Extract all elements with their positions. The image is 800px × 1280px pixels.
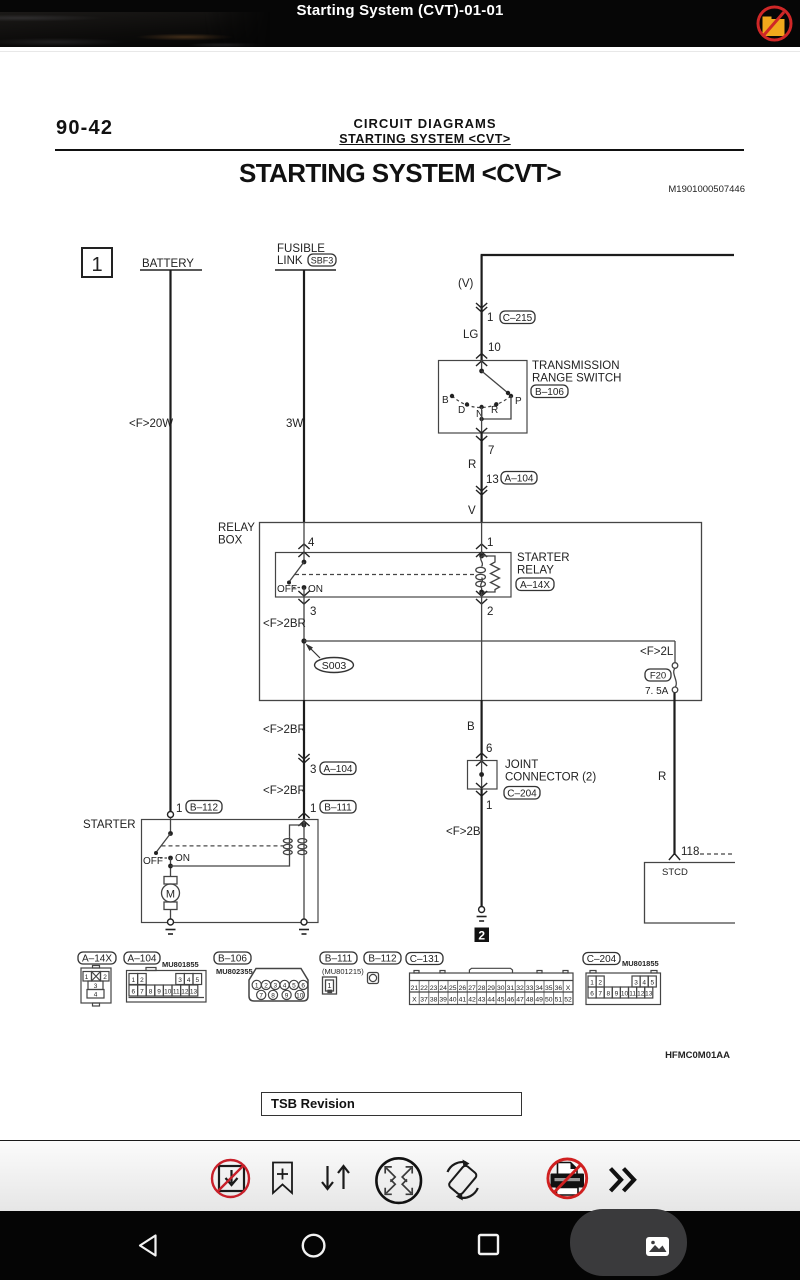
relay OFF-ON dashes	[293, 587, 302, 589]
car photo strip	[0, 12, 270, 47]
svg-text:10: 10	[621, 991, 629, 998]
transmission range switch box B-106	[439, 361, 528, 434]
relay switch blade (OFF)	[289, 562, 304, 582]
svg-text:34: 34	[535, 985, 543, 992]
svg-text:25: 25	[449, 985, 457, 992]
svg-text:2: 2	[598, 980, 602, 987]
starter ON contact dot	[168, 856, 173, 861]
svg-text:B–106: B–106	[218, 954, 247, 965]
TRS output junction dot	[479, 417, 483, 421]
svg-text:C–204: C–204	[507, 789, 537, 800]
starter relay inner box	[276, 553, 512, 598]
svg-text:10: 10	[488, 342, 501, 354]
relay switch common dot	[302, 560, 307, 565]
svg-text:<F>2BR: <F>2BR	[263, 618, 306, 630]
svg-text:7: 7	[140, 989, 144, 996]
svg-text:7: 7	[488, 445, 494, 457]
connector B-106 face	[249, 969, 308, 1002]
hold-in coil windings	[283, 837, 292, 856]
svg-text:44: 44	[487, 997, 495, 1004]
battery B+ terminal bar	[140, 258, 202, 270]
svg-text:8: 8	[149, 989, 153, 996]
svg-text:A–104: A–104	[324, 764, 353, 775]
svg-text:OFF: OFF	[277, 584, 297, 595]
svg-text:1: 1	[487, 537, 493, 549]
starter relay caption	[517, 552, 570, 577]
node 1 (page reference square)	[82, 248, 112, 277]
top app bar	[0, 0, 800, 47]
TRS connector label B-106	[531, 385, 568, 398]
fuse F20 element	[674, 668, 677, 687]
wire battery down to starter	[169, 270, 171, 812]
starter switch blade (OFF)	[156, 834, 171, 853]
svg-text:13: 13	[645, 991, 653, 998]
svg-text:C–204: C–204	[587, 954, 617, 965]
svg-text:1: 1	[91, 254, 102, 276]
wire pin2 down through relay box	[481, 592, 483, 700]
svg-text:13: 13	[486, 474, 499, 486]
starter motor ground terminal	[168, 919, 174, 925]
svg-text:1: 1	[176, 803, 182, 815]
svg-text:3: 3	[178, 977, 182, 984]
connector A-14X label (row)	[78, 952, 116, 965]
connector C-131 face	[410, 968, 574, 1004]
ground G2 symbol	[477, 917, 487, 922]
svg-text:5: 5	[650, 980, 654, 987]
svg-text:<F>20W: <F>20W	[129, 418, 173, 430]
svg-text:<F>2BR: <F>2BR	[263, 785, 306, 797]
starter B-112 terminal circle	[168, 812, 174, 818]
nav recents button	[479, 1235, 498, 1254]
svg-text:26: 26	[459, 985, 467, 992]
svg-text:R: R	[658, 771, 666, 783]
svg-text:JOINT: JOINT	[505, 759, 538, 771]
starter switch blade tip dot	[154, 851, 158, 855]
svg-text:C–131: C–131	[410, 954, 440, 965]
svg-text:CONNECTOR (2): CONNECTOR (2)	[505, 772, 596, 784]
connector A-14X face	[81, 966, 111, 1007]
svg-text:TRANSMISSION: TRANSMISSION	[532, 360, 620, 372]
fusible link SBF3 label	[308, 254, 336, 266]
S003 branch horizontal wire	[304, 640, 675, 642]
toolbar icons svg	[0, 1142, 800, 1214]
joint connector caption	[505, 759, 596, 784]
relay box outline	[260, 523, 702, 701]
svg-text:6: 6	[486, 743, 492, 755]
svg-text:6: 6	[590, 991, 594, 998]
svg-text:9: 9	[285, 993, 289, 1000]
toolbar icon: no-print	[548, 1159, 587, 1198]
svg-text:R: R	[468, 459, 476, 471]
svg-text:1: 1	[487, 312, 493, 324]
svg-text:3: 3	[273, 983, 277, 990]
svg-text:MU802355: MU802355	[216, 967, 253, 976]
STCD wire end arrow	[669, 854, 680, 861]
starter branch wire to hold-in coil	[171, 856, 290, 867]
page header	[56, 117, 113, 140]
relay pin2 exit arrows	[476, 591, 487, 604]
S003 splice label	[315, 658, 354, 673]
starter motor M top brush block	[164, 877, 177, 885]
svg-text:RELAY: RELAY	[218, 522, 255, 534]
connector A-104 label (row)	[124, 952, 160, 965]
wire into relay switch	[303, 523, 305, 562]
relay pin4 entry arrows	[298, 544, 309, 557]
svg-text:A–104: A–104	[505, 474, 534, 485]
joint connector label C-204	[504, 787, 540, 800]
motor to ground wire	[170, 910, 172, 920]
svg-text:45: 45	[497, 997, 505, 1004]
svg-text:1: 1	[131, 977, 135, 984]
toolbar icon: add bookmark	[273, 1163, 292, 1194]
starter motor M bottom brush block	[164, 902, 177, 910]
svg-text:RANGE SWITCH: RANGE SWITCH	[532, 373, 621, 385]
svg-text:31: 31	[507, 985, 515, 992]
TRS dashed position arc	[452, 396, 511, 408]
svg-text:A–14X: A–14X	[82, 954, 112, 965]
svg-text:22: 22	[420, 985, 428, 992]
starter coil ground symbol	[299, 930, 309, 935]
svg-text:V: V	[468, 505, 476, 517]
svg-text:FUSIBLE: FUSIBLE	[277, 243, 325, 255]
svg-text:47: 47	[516, 997, 524, 1004]
svg-text:<F>2BR: <F>2BR	[263, 724, 306, 736]
svg-text:27: 27	[468, 985, 476, 992]
toolbar icon: scroll up-down	[322, 1166, 349, 1189]
svg-text:4: 4	[642, 980, 646, 987]
contact dot N	[479, 405, 483, 409]
fuse F20 label	[645, 669, 671, 682]
relay pin1 entry arrows	[476, 544, 487, 557]
toolbar icon: more chevrons	[611, 1169, 635, 1192]
connector A-104 label	[501, 472, 537, 485]
svg-text:P: P	[515, 396, 522, 407]
relay actuation dashed link	[295, 574, 474, 576]
STCD dashed pin line	[700, 853, 735, 855]
svg-text:1: 1	[327, 981, 331, 990]
svg-text:1: 1	[486, 800, 492, 812]
wire relay box to joint connector	[481, 700, 483, 760]
svg-text:43: 43	[478, 997, 486, 1004]
wire: ignition feed down to TRS	[481, 255, 483, 360]
svg-text:2: 2	[264, 983, 268, 990]
connector B-112 label	[186, 801, 222, 814]
svg-text:3W: 3W	[286, 418, 303, 430]
svg-text:12: 12	[637, 991, 645, 998]
svg-text:7: 7	[598, 991, 602, 998]
TRS common contact wire	[481, 360, 483, 371]
svg-text:2: 2	[140, 977, 144, 984]
wire fuse down to STCD	[673, 693, 675, 855]
svg-text:4: 4	[283, 983, 287, 990]
starter branch junction dot	[168, 864, 173, 869]
joint connector entry arrows	[476, 753, 487, 766]
svg-text:SBF3: SBF3	[311, 256, 334, 266]
connector B-112 label (row)	[364, 952, 401, 965]
TRS exit arrows	[476, 428, 487, 441]
connector B-106 label (row)	[214, 952, 251, 965]
svg-text:3: 3	[310, 764, 316, 776]
no-folder icon	[0, 0, 800, 47]
svg-text:11: 11	[629, 991, 636, 998]
relay coil windings	[476, 556, 486, 592]
coil junction dot on B-111 wire	[302, 823, 307, 828]
svg-text:2: 2	[103, 974, 107, 981]
svg-text:33: 33	[526, 985, 534, 992]
svg-text:6: 6	[301, 983, 305, 990]
svg-text:2: 2	[487, 606, 493, 618]
wire TRS to relay box	[481, 433, 483, 523]
svg-text:B: B	[467, 721, 475, 733]
svg-text:11: 11	[173, 989, 180, 996]
joint connector box	[468, 761, 498, 790]
splice junction S003 dot	[301, 638, 306, 643]
svg-text:36: 36	[555, 985, 563, 992]
svg-text:R: R	[491, 405, 498, 416]
joint connector node dot	[479, 772, 484, 777]
starter OFF-ON dashes	[160, 857, 168, 859]
contact dot R	[494, 402, 498, 406]
svg-text:A–14X: A–14X	[520, 580, 550, 591]
starter switch common dot	[168, 831, 173, 836]
starter motor ground symbol	[166, 930, 176, 935]
pull-in coil feed wire	[303, 819, 305, 836]
TRS output wire	[481, 407, 483, 433]
relay pin3 exit arrows	[298, 591, 309, 604]
svg-text:BOX: BOX	[218, 535, 243, 547]
starter relay connector label A-14X	[516, 578, 554, 591]
connector B-112 face	[368, 973, 379, 984]
fuse F20 top terminal	[672, 663, 678, 669]
svg-text:<F>2B: <F>2B	[446, 826, 481, 838]
svg-text:STARTER: STARTER	[517, 552, 570, 564]
svg-text:MU801855: MU801855	[622, 959, 659, 968]
relay ON contact dot	[302, 585, 307, 590]
pull-in coil windings	[298, 836, 307, 855]
connector C-215 label	[500, 311, 535, 324]
connector C-204 face	[586, 971, 661, 1005]
svg-text:24: 24	[439, 985, 447, 992]
nav screenshot pill	[570, 1209, 687, 1276]
svg-text:8: 8	[271, 993, 275, 1000]
fuse F20 bottom terminal	[672, 687, 678, 693]
svg-text:S003: S003	[322, 660, 347, 672]
svg-text:LINK: LINK	[277, 255, 303, 267]
contact dot D	[465, 402, 469, 406]
svg-text:10: 10	[164, 989, 172, 996]
connector B-111 label	[320, 801, 356, 814]
svg-text:23: 23	[430, 985, 438, 992]
connector B-111 label (row)	[320, 952, 357, 965]
svg-text:B–111: B–111	[324, 803, 352, 814]
svg-text:1: 1	[85, 974, 89, 981]
svg-text:13: 13	[190, 989, 198, 996]
svg-text:ON: ON	[308, 584, 323, 595]
wire into relay coil	[481, 523, 483, 556]
svg-text:B–111: B–111	[325, 954, 353, 965]
svg-text:50: 50	[545, 997, 553, 1004]
app title	[0, 2, 800, 19]
contact dot P	[509, 394, 513, 398]
svg-text:ON: ON	[175, 853, 190, 864]
svg-text:BATTERY: BATTERY	[142, 258, 194, 270]
nav icons svg	[0, 1206, 800, 1280]
svg-text:X: X	[412, 997, 417, 1004]
wire: top feed horizontal	[481, 254, 734, 256]
svg-text:30: 30	[497, 985, 505, 992]
connector break arrows at A-104 (3)	[298, 754, 309, 763]
hold-in coil top connection	[290, 825, 305, 837]
svg-text:51: 51	[555, 997, 563, 1004]
svg-text:B–106: B–106	[535, 387, 564, 398]
wire relay to starter right	[303, 700, 305, 819]
starter box	[142, 820, 319, 923]
svg-text:B–112: B–112	[190, 803, 219, 814]
svg-text:7. 5A: 7. 5A	[645, 686, 669, 697]
svg-text:4: 4	[94, 992, 98, 999]
TRS common node dot	[479, 369, 484, 374]
svg-text:7: 7	[259, 993, 263, 1000]
wire fusible link down to relay box	[303, 270, 305, 523]
svg-text:X: X	[566, 985, 571, 992]
contact dot B	[450, 394, 454, 398]
pull-in coil to ground wire	[303, 855, 305, 919]
bottom toolbar	[0, 1140, 800, 1211]
toolbar icon: fit-to-screen	[376, 1158, 421, 1203]
starter switch actuation dashed link	[162, 845, 285, 847]
svg-text:A–104: A–104	[128, 954, 157, 965]
connector break arrows at A-104	[476, 486, 487, 495]
svg-text:<F>2L: <F>2L	[640, 646, 674, 658]
TRS entry arrows	[476, 354, 487, 367]
svg-text:8: 8	[606, 991, 610, 998]
svg-text:MU801855: MU801855	[162, 960, 199, 969]
svg-text:3: 3	[94, 983, 98, 990]
svg-text:RELAY: RELAY	[517, 565, 554, 577]
TRS position letters	[442, 395, 522, 420]
wire S003 branch down to fuse	[674, 641, 676, 663]
svg-text:52: 52	[564, 997, 572, 1004]
connector C-131 label (row)	[406, 953, 443, 966]
starter switch to motor wire	[170, 858, 172, 877]
relay switch blade tip dot	[287, 581, 291, 585]
svg-text:12: 12	[181, 989, 189, 996]
svg-text:46: 46	[507, 997, 515, 1004]
svg-text:9: 9	[615, 991, 619, 998]
relay box caption	[218, 522, 255, 547]
connector A-104 face	[127, 968, 207, 1003]
svg-text:4: 4	[308, 537, 315, 549]
svg-text:37: 37	[420, 997, 428, 1004]
fusible link terminal bar	[275, 243, 336, 270]
nav back button	[140, 1236, 156, 1256]
nav home button	[303, 1235, 325, 1257]
svg-text:(V): (V)	[458, 278, 474, 290]
TRS wiper arm to P	[482, 371, 508, 393]
svg-text:3: 3	[634, 980, 638, 987]
svg-text:2: 2	[478, 929, 485, 943]
svg-text:5: 5	[195, 977, 199, 984]
svg-text:6: 6	[131, 989, 135, 996]
svg-text:48: 48	[526, 997, 534, 1004]
relay coil top dot	[479, 554, 484, 559]
toolbar icon: rotate screen	[448, 1160, 478, 1201]
wire joint connector to ground	[481, 789, 483, 907]
TSB revision box	[261, 1092, 522, 1116]
ground G2 terminal circle	[479, 907, 485, 913]
svg-text:3: 3	[310, 606, 316, 618]
svg-text:9: 9	[157, 989, 161, 996]
relay coil bottom dot	[479, 590, 484, 595]
svg-text:B–112: B–112	[368, 954, 397, 965]
svg-text:1: 1	[590, 980, 594, 987]
svg-text:4: 4	[187, 977, 191, 984]
svg-text:LG: LG	[463, 329, 478, 341]
joint connector internal wire	[481, 760, 483, 789]
svg-text:35: 35	[545, 985, 553, 992]
svg-text:STARTER: STARTER	[83, 819, 136, 831]
svg-text:118: 118	[681, 846, 699, 858]
connector break arrows at C-215	[476, 303, 487, 312]
svg-text:(MU801215): (MU801215)	[322, 967, 364, 976]
svg-text:21: 21	[411, 985, 419, 992]
S003 callout arrow	[306, 644, 321, 659]
svg-text:39: 39	[439, 997, 447, 1004]
svg-text:STCD: STCD	[662, 867, 688, 878]
svg-text:D: D	[458, 405, 465, 416]
starter switch wire from terminal	[170, 818, 172, 834]
svg-text:41: 41	[459, 997, 467, 1004]
relay coil parallel resistor	[482, 556, 500, 592]
svg-text:1: 1	[255, 983, 259, 990]
svg-text:C–215: C–215	[503, 313, 533, 324]
svg-text:38: 38	[430, 997, 438, 1004]
connector A-104 label (mid)	[320, 762, 356, 775]
svg-text:B: B	[442, 395, 449, 406]
starter coil ground terminal	[301, 919, 307, 925]
svg-text:28: 28	[478, 985, 486, 992]
TRS P contact return path	[482, 396, 511, 419]
connector C-204 label (row)	[583, 953, 620, 966]
starter motor M body	[162, 884, 180, 902]
node 2 (page reference black square)	[475, 928, 490, 943]
svg-text:40: 40	[449, 997, 457, 1004]
svg-text:F20: F20	[650, 671, 666, 682]
svg-text:1: 1	[310, 803, 316, 815]
STCD module box (cut off)	[645, 863, 736, 924]
android navigation bar	[0, 1211, 800, 1280]
svg-text:M: M	[166, 889, 175, 901]
svg-text:32: 32	[516, 985, 524, 992]
svg-text:42: 42	[468, 997, 476, 1004]
wire pin3 down inside relay box	[303, 588, 305, 701]
TRS label text	[532, 360, 621, 385]
svg-text:5: 5	[292, 983, 296, 990]
starter entry arrows B-111	[298, 813, 309, 826]
connector B-111 face	[323, 977, 337, 994]
joint connector exit arrows	[476, 783, 487, 796]
TRS wiper tip dot	[506, 391, 510, 395]
svg-text:29: 29	[487, 985, 495, 992]
toolbar icon: no-download	[212, 1160, 249, 1197]
svg-text:10: 10	[296, 993, 304, 1000]
svg-text:49: 49	[535, 997, 543, 1004]
